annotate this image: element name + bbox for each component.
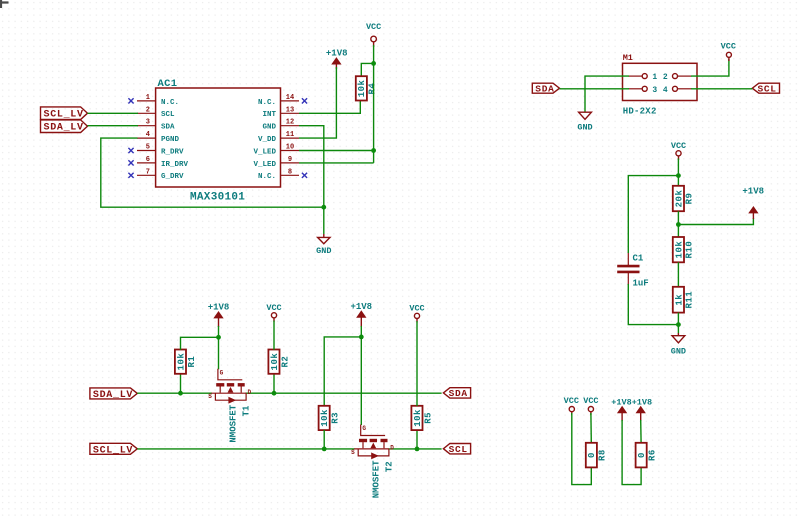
- ground GND (IC): [316, 234, 331, 256]
- svg-text:+1V8: +1V8: [350, 302, 372, 312]
- junction R5/SCL: [415, 447, 420, 452]
- no-connect X pin 5: [128, 148, 133, 153]
- pin 4 PGND: [137, 131, 180, 144]
- svg-text:R10: R10: [685, 241, 695, 259]
- resistor R10 10k: [673, 237, 695, 262]
- pin 3 SDA: [137, 119, 175, 132]
- svg-text:IR_DRV: IR_DRV: [161, 161, 189, 169]
- wire +1V8 left down around to R6 bottom: [622, 420, 641, 485]
- svg-text:+1V8: +1V8: [611, 397, 631, 407]
- svg-text:R3: R3: [331, 412, 341, 424]
- svg-text:G: G: [362, 425, 366, 432]
- svg-text:0: 0: [637, 452, 647, 458]
- no-connect X pin 8: [302, 173, 307, 178]
- wire pin12 GND down: [299, 126, 324, 208]
- svg-text:SCL: SCL: [758, 83, 777, 94]
- wire R9 to junction2: [677, 211, 679, 237]
- svg-text:10k: 10k: [674, 241, 684, 259]
- svg-text:10k: 10k: [357, 79, 367, 97]
- op-amp AC1 MAX30101 IC body: [156, 78, 281, 204]
- wire GND stub: [323, 207, 325, 234]
- svg-text:1k: 1k: [674, 294, 684, 306]
- svg-text:8: 8: [288, 168, 292, 176]
- transistor T1 NMOSFET: [208, 369, 251, 443]
- pin 7 G_DRV: [137, 168, 184, 181]
- svg-text:MAX30101: MAX30101: [190, 192, 245, 204]
- svg-text:M1: M1: [623, 53, 633, 63]
- power +1V8 (divider): [742, 187, 764, 219]
- svg-text:2: 2: [663, 73, 668, 82]
- power +1V8 (right of R6): [632, 397, 652, 421]
- svg-text:10k: 10k: [176, 353, 186, 371]
- wire +1V8 down: [218, 326, 220, 337]
- svg-text:VCC: VCC: [366, 22, 381, 32]
- svg-text:VCC: VCC: [409, 304, 424, 314]
- wire SCL row right: [389, 448, 442, 450]
- svg-text:13: 13: [286, 106, 294, 114]
- pin 4 of M1: [673, 86, 692, 91]
- svg-text:GND: GND: [671, 347, 686, 357]
- svg-text:GND: GND: [262, 124, 276, 132]
- pin 13 INT: [262, 106, 299, 119]
- svg-text:VCC: VCC: [266, 303, 281, 313]
- resistor R6 0: [636, 443, 658, 468]
- svg-text:V_LED: V_LED: [253, 148, 276, 156]
- power VCC (connector): [721, 42, 736, 61]
- wire R2 bottom: [273, 374, 275, 394]
- svg-text:D: D: [390, 445, 394, 452]
- svg-text:G_DRV: G_DRV: [161, 173, 184, 181]
- junction R1/SDA_LV: [178, 391, 183, 396]
- pin 1 of M1: [629, 74, 648, 79]
- svg-text:14: 14: [286, 94, 294, 102]
- pin 14 N.C.: [258, 94, 299, 107]
- wire SDA row right: [246, 392, 442, 394]
- svg-text:6: 6: [146, 156, 150, 164]
- svg-text:V_LED: V_LED: [253, 161, 276, 169]
- wire VCC to R5: [416, 321, 418, 406]
- pin 2 SCL: [137, 106, 175, 119]
- wire pin4 to SCL: [691, 88, 752, 90]
- net label SCL_LV: [90, 443, 137, 456]
- svg-text:N.C.: N.C.: [258, 173, 276, 181]
- svg-text:SDA_LV: SDA_LV: [44, 123, 84, 134]
- pin 10 V_LED: [253, 144, 299, 157]
- wire SDA to pin3: [560, 88, 630, 90]
- wire VCC right to R8 top: [590, 413, 592, 443]
- junction +1V8/R1/gate: [216, 335, 221, 340]
- wire gate T1: [218, 337, 220, 369]
- svg-text:V_DD: V_DD: [258, 136, 277, 144]
- junction +1V8/R3/gate T2: [359, 335, 364, 340]
- svg-text:GND: GND: [577, 122, 592, 132]
- pin numbers 1 2 / 3 4: [652, 73, 668, 95]
- svg-text:R9: R9: [685, 193, 695, 205]
- frame corner mark: [0, 0, 9, 8]
- wire R11 to rail: [677, 313, 679, 333]
- wire junction2 to +1V8: [678, 218, 753, 225]
- resistor R9 20k: [673, 186, 695, 211]
- resistor R1 10k: [175, 350, 197, 374]
- pin 11 V_DD: [258, 131, 299, 144]
- svg-text:GND: GND: [316, 246, 331, 256]
- svg-text:PGND: PGND: [161, 136, 180, 144]
- svg-text:SCL_LV: SCL_LV: [44, 110, 84, 121]
- svg-text:T2: T2: [384, 461, 394, 472]
- net label SCL_LV: [41, 107, 88, 121]
- svg-text:+1V8: +1V8: [208, 303, 230, 313]
- svg-text:+1V8: +1V8: [326, 49, 348, 59]
- pin 5 R_DRV: [137, 144, 184, 157]
- svg-text:INT: INT: [262, 111, 276, 119]
- wire SCL_LV to pin2: [88, 112, 139, 114]
- wire SDA_LV row: [137, 392, 212, 394]
- svg-text:G: G: [220, 369, 224, 376]
- power VCC (above R5): [409, 304, 424, 323]
- ground GND (divider): [671, 333, 686, 357]
- power VCC (left of R8): [564, 396, 579, 415]
- svg-text:SCL: SCL: [161, 111, 175, 119]
- svg-text:5: 5: [146, 144, 150, 152]
- wire R1 bottom: [180, 374, 182, 394]
- svg-text:R5: R5: [423, 412, 433, 424]
- svg-text:R6: R6: [647, 449, 657, 461]
- power VCC (divider): [671, 141, 686, 160]
- svg-text:HD-2X2: HD-2X2: [623, 107, 657, 117]
- svg-text:0: 0: [587, 452, 597, 458]
- junction rail/GND: [676, 322, 681, 327]
- wire pin10 V_LED to VCC line: [299, 150, 374, 152]
- wire +1V8 down: [360, 326, 362, 337]
- pin 1 N.C.: [137, 94, 179, 107]
- svg-text:4: 4: [146, 131, 150, 139]
- svg-text:T1: T1: [242, 405, 252, 416]
- wire R1 top to +1V8 junction: [181, 337, 219, 350]
- net label SDA_LV: [41, 120, 88, 134]
- svg-text:1: 1: [652, 73, 657, 82]
- connector M1 HD-2X2 body: [623, 53, 698, 117]
- svg-text:10: 10: [286, 144, 294, 152]
- net label SDA_LV: [90, 388, 137, 401]
- net label SDA (top): [532, 83, 559, 94]
- resistor R8 0: [586, 443, 608, 468]
- svg-text:11: 11: [286, 131, 294, 139]
- svg-text:N.C.: N.C.: [161, 99, 179, 107]
- pin 9 V_LED: [253, 156, 299, 169]
- no-connect X pin 6: [128, 160, 133, 165]
- svg-text:1uF: 1uF: [633, 279, 649, 289]
- pin 3 of M1: [629, 86, 648, 91]
- power +1V8 (near IC): [326, 49, 348, 69]
- wire SCL_LV row: [137, 448, 354, 450]
- power +1V8 (left of R6): [611, 397, 631, 421]
- svg-text:3: 3: [146, 119, 150, 127]
- svg-text:3: 3: [652, 86, 657, 95]
- wire gate T2: [360, 337, 362, 425]
- capacitor C1 1uF: [617, 253, 649, 289]
- junction R3/SCL_LV: [322, 447, 327, 452]
- wire VCC vertical: [373, 45, 375, 163]
- wire junction to C1 top: [628, 176, 678, 253]
- svg-text:7: 7: [146, 168, 150, 176]
- svg-text:10k: 10k: [270, 353, 280, 371]
- wire R5 bottom: [416, 430, 418, 449]
- svg-text:+1V8: +1V8: [632, 397, 652, 407]
- wire +1V8 right to R6 top: [640, 420, 642, 443]
- ground GND (connector): [577, 112, 592, 132]
- pin 2 of M1: [673, 74, 692, 79]
- pin 12 GND: [262, 119, 299, 132]
- svg-text:SDA: SDA: [161, 124, 175, 132]
- wire R3 top to +1V8 junction: [324, 337, 361, 406]
- wire VCC left down around to R8 bottom: [572, 413, 592, 485]
- junction R2/SDA: [272, 391, 277, 396]
- svg-text:VCC: VCC: [564, 396, 579, 406]
- svg-text:SDA: SDA: [535, 83, 554, 94]
- svg-text:SCL: SCL: [449, 444, 468, 455]
- svg-text:NMOSFET: NMOSFET: [229, 404, 239, 442]
- svg-text:D: D: [248, 389, 252, 396]
- net label SCL (top): [752, 83, 779, 94]
- resistor R3 10k: [319, 406, 341, 430]
- junction VCC/R4: [371, 61, 376, 66]
- svg-text:R8: R8: [598, 449, 608, 461]
- svg-text:R1: R1: [187, 356, 197, 368]
- svg-text:S: S: [351, 449, 355, 456]
- power VCC (above R2): [266, 303, 281, 322]
- power +1V8 (T2 gate): [350, 302, 372, 327]
- svg-text:NMOSFET: NMOSFET: [371, 460, 381, 498]
- svg-text:20k: 20k: [674, 190, 684, 208]
- power +1V8 (T1 gate): [208, 303, 230, 328]
- svg-text:SDA_LV: SDA_LV: [93, 390, 133, 401]
- pin 8 N.C.: [258, 168, 299, 181]
- no-connect X pin 1: [128, 98, 133, 103]
- svg-text:C1: C1: [633, 253, 644, 263]
- net label SCL (shifter): [443, 444, 470, 456]
- svg-text:9: 9: [288, 156, 292, 164]
- wire R3 bottom: [323, 430, 325, 449]
- wire R10 to R11: [677, 262, 679, 287]
- wire pin1 to GND: [585, 76, 629, 111]
- wire pin13 INT to R4: [299, 101, 360, 113]
- svg-text:R_DRV: R_DRV: [161, 148, 184, 156]
- svg-text:SDA: SDA: [449, 388, 468, 399]
- wire pin11 V_DD to +1V8: [299, 67, 336, 138]
- no-connect X pin 7: [128, 173, 133, 178]
- net label SDA (shifter): [443, 388, 470, 400]
- svg-text:N.C.: N.C.: [258, 99, 276, 107]
- junction GND rail: [321, 205, 326, 210]
- resistor R2 10k: [268, 350, 290, 374]
- wire VCC to R2: [273, 321, 275, 350]
- power VCC (right of R8): [583, 396, 598, 415]
- resistor R5 10k: [411, 406, 433, 430]
- transistor T2 NMOSFET: [351, 425, 394, 499]
- junction R9/R10/+1V8: [676, 222, 681, 227]
- power VCC (top): [366, 22, 381, 47]
- wire VCC down to junction: [677, 159, 679, 176]
- junction VCC/C1/R9: [676, 173, 681, 178]
- svg-text:12: 12: [286, 119, 294, 127]
- svg-text:1: 1: [146, 94, 150, 102]
- wire SDA_LV to pin3: [88, 125, 139, 127]
- wire PGND to GND rail: [101, 138, 323, 207]
- resistor R4 10k: [356, 63, 378, 100]
- svg-text:10k: 10k: [413, 409, 423, 427]
- wire pin2 to VCC: [691, 59, 729, 76]
- svg-text:SCL_LV: SCL_LV: [93, 445, 133, 456]
- svg-text:S: S: [208, 393, 212, 400]
- svg-text:VCC: VCC: [721, 42, 736, 52]
- svg-text:VCC: VCC: [671, 141, 686, 151]
- svg-text:2: 2: [146, 106, 150, 114]
- svg-text:+1V8: +1V8: [742, 187, 764, 197]
- wire C1 bottom to rail: [628, 284, 678, 325]
- svg-text:R2: R2: [280, 356, 290, 368]
- no-connect X pin 14: [302, 98, 307, 103]
- svg-text:VCC: VCC: [583, 396, 598, 406]
- svg-text:R11: R11: [685, 291, 695, 309]
- junction pin10: [371, 148, 376, 153]
- svg-text:AC1: AC1: [158, 78, 178, 90]
- svg-text:10k: 10k: [320, 409, 330, 427]
- pin 6 IR_DRV: [137, 156, 189, 169]
- svg-text:R4: R4: [368, 83, 378, 95]
- wire junction to R9: [677, 176, 679, 186]
- svg-text:4: 4: [663, 86, 668, 95]
- resistor R11 1k: [673, 287, 695, 313]
- wire pin9 V_LED: [299, 162, 374, 164]
